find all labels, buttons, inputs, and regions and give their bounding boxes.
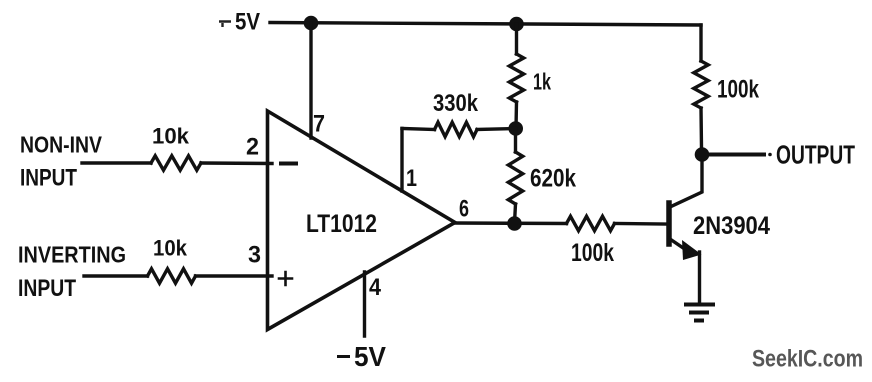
svg-text:INVERTING: INVERTING: [18, 242, 126, 268]
resistor 10k (bottom): [148, 269, 196, 283]
junction dot: rail to pin7: [304, 16, 319, 31]
op-amp non-inverting input plus sign: [279, 272, 292, 285]
wire: +5V top rail: [270, 23, 701, 26]
label -5V: [337, 355, 350, 358]
junction dot: 1k/330k/620k node: [508, 121, 523, 136]
wire: op-amp pin 4 to -5V: [363, 272, 366, 336]
resistor 620k: [514, 129, 517, 153]
transistor Q1 2N3904 base bar: [666, 203, 672, 244]
svg-text:6: 6: [459, 196, 469, 223]
resistor 330k: [402, 129, 435, 130]
transistor emitter arrowhead: [682, 240, 702, 260]
junction dot: rail to 1k: [509, 17, 524, 32]
svg-text:100k: 100k: [571, 239, 614, 267]
svg-text:1: 1: [406, 165, 417, 192]
svg-text:620k: 620k: [530, 165, 576, 193]
output terminal dash: [768, 153, 772, 157]
svg-text:10k: 10k: [153, 236, 188, 261]
svg-text:2N3904: 2N3904: [693, 212, 770, 240]
svg-text:4: 4: [369, 274, 382, 301]
wire: 100k down to output node: [699, 108, 703, 148]
op-amp U1 LT1012 triangle: [268, 111, 456, 330]
wire: 10k to pin 3: [196, 274, 273, 277]
wire: NON-INV INPUT lead: [82, 161, 151, 164]
wire: right rail corner down to 100k: [699, 25, 702, 61]
ground symbol: [684, 303, 715, 307]
svg-text:5V: 5V: [235, 9, 260, 36]
wire: 330k left end down to op-amp pin 1: [400, 129, 403, 192]
svg-text:2: 2: [246, 134, 259, 161]
wire: output node to OUTPUT terminal: [709, 153, 764, 157]
op-amp inverting input minus sign: [281, 162, 296, 166]
svg-text:7: 7: [313, 111, 325, 138]
junction dot: output node: [695, 147, 710, 162]
svg-text:10k: 10k: [152, 124, 190, 149]
svg-text:NON-INV: NON-INV: [20, 132, 103, 158]
svg-text:LT1012: LT1012: [306, 210, 377, 238]
+5V supply label: [219, 22, 231, 28]
svg-text:330k: 330k: [433, 90, 479, 117]
resistor 100k (collector pull-up): [694, 61, 708, 108]
resistor 10k (top): [151, 156, 201, 170]
transistor emitter lead: [670, 239, 692, 254]
svg-text:3: 3: [248, 242, 261, 269]
wire: 10k to pin 2: [201, 161, 272, 165]
transistor collector lead: [670, 161, 702, 207]
wire: rail down to op-amp pin 7: [309, 23, 312, 138]
wire: 100k to transistor base: [615, 222, 667, 226]
svg-text:INPUT: INPUT: [20, 165, 77, 192]
resistor 100k (base): [567, 216, 615, 230]
wire: INVERTING INPUT lead: [84, 274, 148, 277]
svg-text:SeekIC.com: SeekIC.com: [752, 346, 863, 373]
resistor 1k: [515, 24, 518, 54]
svg-text:INPUT: INPUT: [18, 275, 76, 302]
svg-text:OUTPUT: OUTPUT: [776, 140, 855, 170]
wire: op-amp output pin 6: [455, 221, 567, 225]
wire: emitter down to ground: [698, 252, 701, 302]
svg-text:100k: 100k: [717, 76, 759, 104]
svg-text:1k: 1k: [533, 69, 551, 95]
svg-text:5V: 5V: [354, 341, 386, 372]
junction dot: pin6/620k node: [507, 216, 522, 231]
